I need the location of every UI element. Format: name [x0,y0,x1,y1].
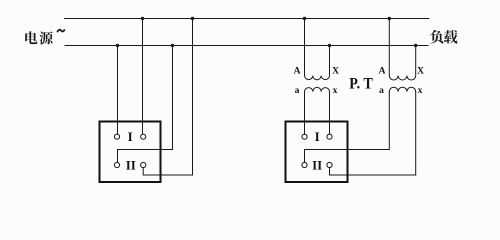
svg-text:x: x [418,86,423,96]
svg-text:P. T: P. T [349,76,373,93]
svg-text:X: X [417,67,424,77]
svg-text:A: A [294,67,301,77]
svg-text:II: II [126,157,136,172]
svg-text:A: A [379,67,386,77]
svg-text:I: I [315,129,320,144]
svg-text:X: X [332,67,339,77]
svg-text:x: x [333,86,338,96]
svg-text:I: I [128,129,133,144]
svg-text:a: a [379,86,384,96]
svg-text:II: II [312,157,322,172]
svg-text:a: a [295,86,300,96]
